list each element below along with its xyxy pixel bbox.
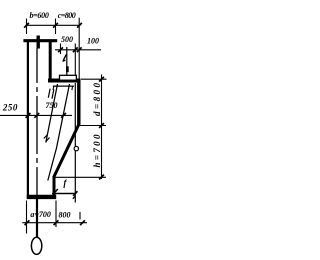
tick at projection corner — [73, 191, 77, 196]
left dimension line 250/750 — [0, 114, 72, 116]
extension corbel top — [81, 78, 107, 80]
corbel outer face — [77, 79, 80, 126]
axis dash-dot centerline — [36, 48, 38, 196]
column top edge — [23, 39, 57, 42]
column bottom cut bar — [27, 195, 56, 199]
svg-text:800: 800 — [59, 211, 71, 220]
extension plate right — [74, 44, 76, 76]
svg-text:500: 500 — [61, 35, 73, 44]
extension plate left — [60, 44, 62, 55]
rebar 1 hook second stroke — [46, 138, 50, 142]
ledge projection line — [52, 193, 76, 195]
tick plate-left — [58, 47, 63, 52]
corbel ledge top — [48, 79, 81, 83]
tick at column left edge — [26, 113, 31, 118]
bent rebar 2 — [48, 84, 70, 181]
tick top-right — [77, 23, 82, 28]
tick right-top — [99, 77, 104, 82]
tick bottom-left — [25, 220, 30, 225]
corbel sloped underside — [54, 124, 79, 178]
rebar hatch mark 2 — [52, 90, 54, 99]
weld circle — [74, 146, 78, 150]
extension line middle — [55, 19, 57, 35]
rebar hatch mark 1 — [48, 89, 50, 98]
embedded plate hidden line — [53, 85, 74, 87]
tick bottom-right — [80, 220, 85, 225]
svg-text:b=600: b=600 — [29, 11, 48, 20]
svg-text:100: 100 — [87, 37, 99, 46]
top dimension line — [26, 24, 81, 26]
anchor bolt line — [66, 47, 68, 75]
column left edge — [27, 40, 29, 200]
tick right-bottom — [99, 175, 104, 180]
bottom dimension line — [22, 222, 87, 224]
axis bubble — [31, 237, 41, 254]
bent rebar 1 — [46, 84, 58, 143]
axis solid lower segment — [36, 197, 38, 238]
extension bottom right stub — [79, 212, 81, 220]
svg-text:c=800: c=800 — [58, 11, 76, 20]
tick top-middle — [53, 23, 58, 28]
extension corbel bottom — [55, 176, 107, 178]
right vertical dimension line — [101, 75, 103, 180]
axis tick through column top — [37, 36, 40, 49]
extension line left — [26, 19, 28, 35]
tick at bent bar — [61, 113, 66, 118]
tick at corbel face ext — [77, 47, 82, 52]
leader hook to plate — [63, 55, 66, 61]
tick bottom-middle — [54, 220, 59, 225]
extension corbel mid — [79, 125, 106, 127]
extension line right long — [78, 18, 80, 79]
plate dimension line 500/100 — [55, 49, 101, 51]
column lower right edge — [53, 176, 56, 197]
column upper right edge — [49, 40, 52, 83]
tick plate-right — [73, 47, 78, 52]
hidden line stub right — [71, 86, 74, 90]
svg-text:a=700: a=700 — [30, 210, 51, 219]
inner vertical bar — [74, 83, 76, 203]
tick right-middle — [99, 123, 104, 128]
leader hook foot — [63, 60, 66, 61]
extension bottom middle — [55, 201, 57, 228]
rebar 1 end hook — [44, 135, 48, 139]
hidden line stub left — [52, 86, 55, 90]
extension bottom left — [26, 201, 28, 234]
tick at axis — [34, 113, 39, 118]
mark at lower column edge — [55, 189, 58, 192]
tick top-left — [24, 23, 29, 28]
svg-text:750: 750 — [46, 101, 58, 110]
bearing plate — [60, 75, 77, 80]
anchor bolt head — [66, 66, 69, 72]
small stroke below tick — [73, 196, 75, 199]
svg-text:250: 250 — [2, 103, 18, 113]
